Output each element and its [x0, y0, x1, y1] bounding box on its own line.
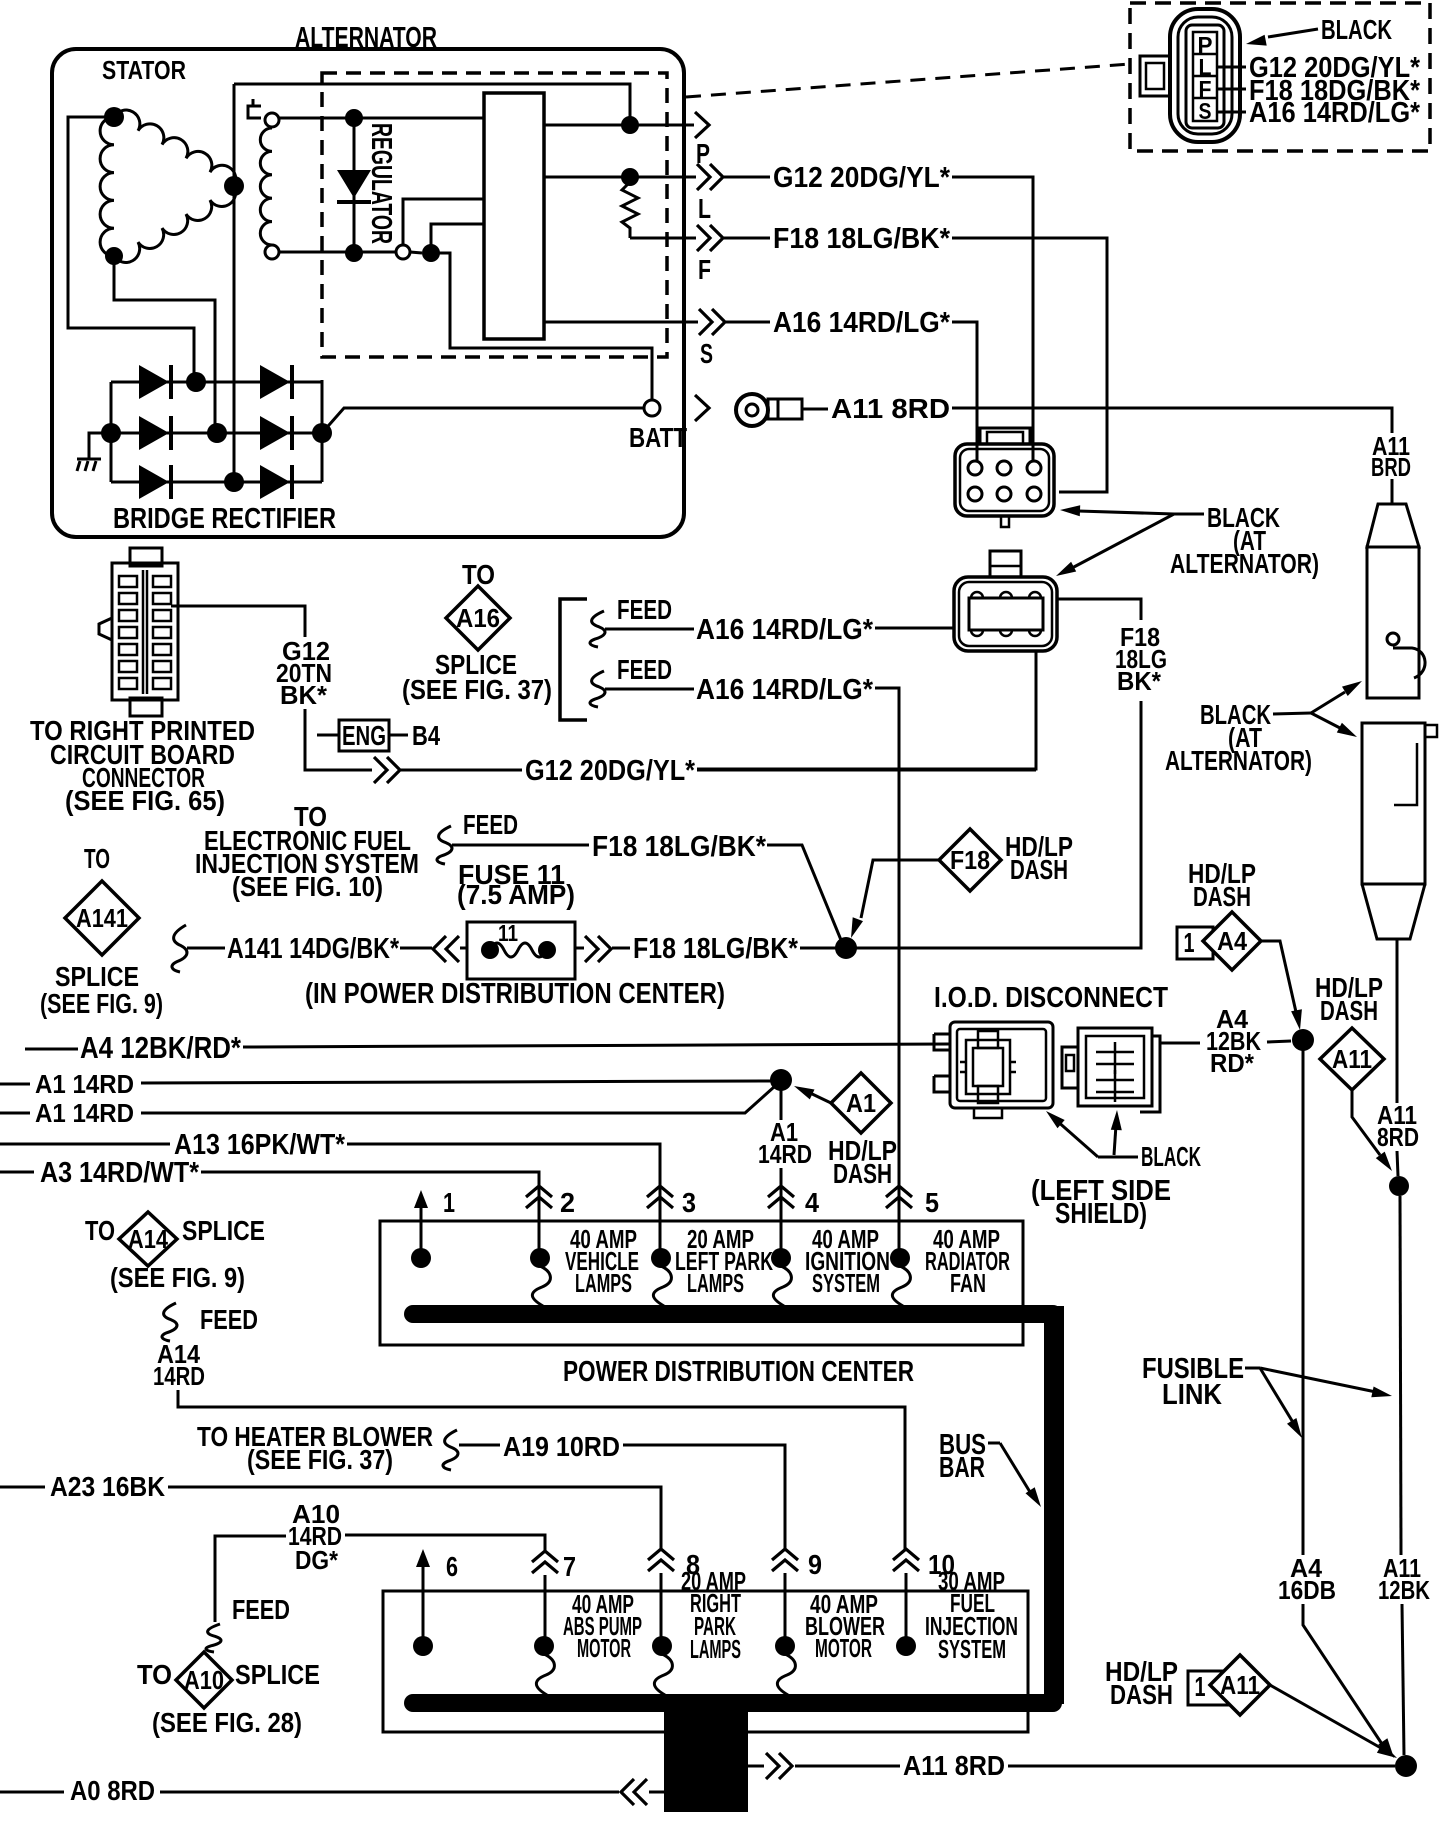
PDC box lower: [383, 1591, 1028, 1732]
wire into fusible link 1: [1391, 479, 1394, 504]
node bottom junction: [1395, 1755, 1417, 1777]
fuse 7 element: [536, 1654, 554, 1695]
pin C1-3: [1027, 461, 1041, 475]
connector C1 bottom tab: [1001, 516, 1009, 527]
terminal P chevron: [695, 112, 709, 138]
fuse 8 element: [654, 1654, 672, 1695]
wire open-terminal to block input: [403, 199, 484, 245]
svg-text:5: 5: [925, 1187, 939, 1218]
diode CR1 field: [353, 118, 356, 252]
bridge rectifier right rail: [321, 380, 324, 482]
svg-text:FEED: FEED: [200, 1304, 258, 1335]
wire fuse 4 from A1 node: [780, 1090, 783, 1120]
arrow to 3-pin connector: [1072, 514, 1174, 568]
wire A14 to fuse 10: [178, 1390, 905, 1551]
wire bridge to ground: [89, 433, 111, 458]
svg-text:FEED: FEED: [617, 654, 672, 685]
wire A19 lead: [459, 1444, 500, 1447]
svg-text:A1 14RD: A1 14RD: [35, 1069, 134, 1099]
arrow to fusible link 1: [1311, 692, 1345, 713]
wire to F18 junction node: [800, 947, 836, 950]
wire G12 20TN BK* from PCB connector: [171, 606, 305, 637]
svg-text:S: S: [700, 338, 713, 369]
wire break A19: [443, 1430, 458, 1470]
node F18 junction: [835, 937, 857, 959]
svg-text:G12 20DG/YL*: G12 20DG/YL*: [773, 162, 951, 194]
connector C1 top tab: [980, 428, 1030, 444]
fuse 11 terminal right: [538, 941, 556, 959]
wire A4 12BK RD* from IOD to node: [1160, 1042, 1200, 1045]
wire A13 16PK/WT* bus: [0, 1143, 170, 1146]
wire A11 8RD from tap block: [748, 1765, 764, 1768]
arrow to IOD left connector: [1056, 1120, 1098, 1157]
connector IOD left half: [950, 1022, 1053, 1108]
wire break FEED F18: [437, 826, 452, 864]
svg-text:POWER DISTRIBUTION CENTER: POWER DISTRIBUTION CENTER: [563, 1356, 914, 1388]
wire A1 14RD bus 1: [0, 1083, 30, 1086]
svg-text:FEED: FEED: [232, 1594, 290, 1625]
node A11 mid: [1389, 1176, 1409, 1196]
bus bar lower horizontal: [413, 1694, 1053, 1712]
svg-text:BATT: BATT: [629, 422, 687, 453]
svg-text:FEED: FEED: [617, 594, 672, 625]
wire A11 12BK down: [1400, 1196, 1401, 1555]
splice symbol F18: [939, 829, 1001, 891]
wire feed1 to 3-pin connector: [875, 627, 954, 630]
pin leader G12: [1217, 66, 1246, 69]
wire G12 lead lower: [401, 769, 522, 772]
arrow to A11 link: [1260, 1368, 1376, 1392]
wire regulator top feed: [234, 84, 630, 125]
diode CR5: [260, 416, 290, 450]
regulator dashed box: [322, 73, 667, 357]
wire from fuse box: [575, 947, 584, 950]
svg-text:BK*: BK*: [280, 680, 328, 710]
wire A10 to fuse 7: [215, 1535, 545, 1622]
fuse 7 chevron: [532, 1551, 558, 1562]
arrow to A4 link: [1260, 1368, 1294, 1424]
svg-text:A0 8RD: A0 8RD: [70, 1775, 155, 1806]
wire A1 bus1 to node: [141, 1081, 771, 1083]
ground: [77, 459, 101, 471]
svg-text:A13 16PK/WT*: A13 16PK/WT*: [174, 1129, 346, 1161]
svg-text:TO: TO: [137, 1659, 172, 1690]
wire A11 12BK to bottom junction: [1402, 1604, 1404, 1755]
wire G12 20TN down to chevron: [305, 709, 372, 770]
wire A141 lead: [187, 947, 225, 950]
pin C1-2: [997, 461, 1011, 475]
wire bridge row1: [111, 381, 322, 384]
svg-text:L: L: [698, 193, 711, 224]
svg-text:(IN POWER DISTRIBUTION CENTER): (IN POWER DISTRIBUTION CENTER): [305, 978, 725, 1010]
connector C2 3-pin body: [954, 577, 1057, 651]
svg-text:SHIELD): SHIELD): [1055, 1198, 1147, 1230]
node A1 junction: [770, 1069, 792, 1091]
svg-text:12BK: 12BK: [1378, 1575, 1430, 1605]
splice symbol A11 bottom: [1210, 1655, 1270, 1715]
wire break FEED 2: [590, 671, 605, 707]
svg-text:RD*: RD*: [1210, 1048, 1255, 1078]
wire A11 diamond to bottom junction: [1270, 1685, 1388, 1752]
svg-text:(SEE FIG. 28): (SEE FIG. 28): [152, 1707, 302, 1738]
wire G12 lower to 3-pin connector: [697, 769, 1036, 772]
svg-text:A141: A141: [76, 903, 128, 933]
svg-text:F18 18LG/BK*: F18 18LG/BK*: [592, 831, 767, 863]
arrow A1 diamond to node: [808, 1092, 831, 1103]
svg-text:ALTERNATOR): ALTERNATOR): [1165, 745, 1312, 776]
wire G12 lead: [724, 176, 770, 179]
bus bar vertical: [1044, 1306, 1064, 1704]
wire A0 to bus tap: [160, 1791, 619, 1794]
svg-text:(SEE FIG. 10): (SEE FIG. 10): [232, 871, 383, 902]
wire A0 into tap block: [649, 1791, 664, 1794]
pin leader A16: [1217, 111, 1246, 114]
svg-text:SYSTEM: SYSTEM: [938, 1634, 1006, 1664]
leader BLACK lower: [1273, 713, 1311, 714]
svg-text:A14: A14: [128, 1224, 168, 1254]
node field bottom: [345, 244, 363, 262]
node L: [621, 168, 639, 186]
diode CR7: [260, 465, 290, 499]
wire A23 16BK bus: [0, 1486, 45, 1489]
svg-text:14RD: 14RD: [153, 1361, 205, 1391]
wire A13 to fuse 3: [347, 1144, 660, 1250]
svg-text:F18: F18: [950, 845, 990, 875]
arrow BUS BAR to bus: [1000, 1443, 1030, 1492]
fuse 3 chevron: [647, 1186, 673, 1197]
leader BLACK shield: [1098, 1156, 1138, 1159]
svg-text:A1: A1: [846, 1088, 876, 1118]
terminal fuse-out double chevron (right): [585, 936, 598, 962]
wire break A141: [172, 925, 187, 972]
svg-text:(SEE FIG. 37): (SEE FIG. 37): [402, 674, 552, 705]
fusible link FL1: [1367, 504, 1419, 547]
svg-text:DASH: DASH: [1010, 854, 1068, 885]
svg-text:A19 10RD: A19 10RD: [503, 1431, 620, 1462]
wire A11 8RD to right column: [952, 408, 1392, 433]
wire into fuse box: [460, 947, 467, 950]
fuse 11 box: [467, 922, 575, 979]
node stator bottom: [105, 247, 123, 265]
svg-text:SYSTEM: SYSTEM: [812, 1268, 880, 1298]
svg-text:BAR: BAR: [939, 1452, 985, 1484]
splice symbol A10: [176, 1652, 232, 1708]
svg-text:LINK: LINK: [1162, 1379, 1222, 1411]
svg-text:FAN: FAN: [950, 1268, 986, 1298]
connector right printed circuit board: [112, 563, 178, 700]
wire break FEED A10: [206, 1624, 221, 1652]
terminal fuse-in double chevron (left): [433, 936, 446, 962]
fuse 9 chevron: [772, 1549, 798, 1560]
node fuse 9: [775, 1636, 795, 1656]
fuse 4 chevron: [768, 1186, 794, 1197]
wire node up into block: [431, 224, 484, 253]
svg-text:REGULATOR: REGULATOR: [365, 123, 397, 244]
stator delta winding W2 bottom-right edge: [114, 186, 236, 263]
stator delta winding W3 left edge: [100, 117, 114, 256]
fuse 11 terminal left: [481, 941, 499, 959]
wire break FEED A14: [162, 1303, 177, 1341]
wire node to BATT: [431, 253, 652, 400]
terminal field return (open): [396, 245, 410, 259]
node field top: [345, 109, 363, 127]
svg-text:DASH: DASH: [1193, 881, 1251, 912]
svg-text:3: 3: [682, 1187, 696, 1218]
fuse 10 chevron: [893, 1549, 919, 1560]
svg-text:I.O.D. DISCONNECT: I.O.D. DISCONNECT: [934, 982, 1168, 1014]
node fuse 1: [411, 1248, 431, 1268]
connector detail dashed box: [1130, 3, 1430, 151]
svg-text:A10: A10: [184, 1665, 224, 1695]
svg-text:A141 14DG/BK*: A141 14DG/BK*: [227, 933, 400, 965]
svg-text:ALTERNATOR: ALTERNATOR: [295, 22, 437, 54]
wire to fuse chevron: [400, 947, 432, 950]
connector tab left: [1140, 56, 1170, 96]
dashed leader from alternator to detail box: [686, 64, 1130, 97]
svg-text:SPLICE: SPLICE: [182, 1215, 265, 1246]
svg-text:ALTERNATOR): ALTERNATOR): [1170, 548, 1319, 579]
arrow to fusible link 2: [1311, 713, 1340, 728]
wire A1 bus2 to node: [141, 1087, 774, 1113]
wire A11 8RD to junction: [1008, 1765, 1395, 1768]
svg-text:A11: A11: [1220, 1670, 1260, 1700]
wire A1 14RD bus 2: [0, 1112, 30, 1115]
resistor R1: [622, 182, 638, 238]
connector C2 terminal bar: [969, 598, 1043, 630]
svg-text:B4: B4: [412, 720, 441, 751]
splice symbol A11 upper: [1320, 1028, 1384, 1090]
node fuse 3: [651, 1248, 671, 1268]
svg-text:F18 18LG/BK*: F18 18LG/BK*: [773, 223, 951, 255]
svg-text:(SEE FIG. 9): (SEE FIG. 9): [40, 988, 163, 1019]
svg-text:A4: A4: [1217, 926, 1247, 956]
wire A4 bus to IOD connector: [243, 1044, 950, 1047]
svg-text:LAMPS: LAMPS: [575, 1268, 632, 1298]
connector C2 top tab: [990, 551, 1021, 577]
node P: [621, 116, 639, 134]
svg-text:14RD: 14RD: [758, 1139, 812, 1169]
svg-text:A1 14RD: A1 14RD: [35, 1098, 134, 1128]
wire L output: [544, 176, 696, 179]
node fuse 5: [890, 1248, 910, 1268]
stator delta winding W1 top-right edge: [114, 110, 236, 186]
svg-text:BK*: BK*: [1117, 666, 1162, 696]
svg-text:BLACK: BLACK: [1321, 14, 1392, 45]
wire F18 lead: [724, 237, 770, 240]
pin C1-5: [997, 487, 1011, 501]
bus bar tap block: [664, 1705, 748, 1812]
svg-text:11: 11: [498, 920, 518, 946]
svg-text:4: 4: [805, 1187, 820, 1218]
svg-text:F: F: [698, 254, 711, 285]
terminal L double chevron: [697, 164, 710, 190]
bus bar upper horizontal: [413, 1305, 1053, 1323]
diode CR6: [139, 465, 169, 499]
svg-text:LAMPS: LAMPS: [690, 1634, 741, 1664]
wire A4 16DB down: [1302, 1040, 1305, 1555]
fuse 6 stud arrow: [422, 1559, 425, 1571]
fuse 4 element: [773, 1266, 791, 1306]
ring terminal A11: [736, 394, 768, 426]
wire A11 8RD lead: [795, 1765, 900, 1768]
wire P output: [544, 124, 694, 127]
wire F18 to connector: [952, 238, 1107, 492]
svg-text:1: 1: [1184, 927, 1195, 958]
svg-text:A16: A16: [456, 603, 500, 633]
wire A4 16DB to bottom junction: [1303, 1604, 1382, 1744]
node fuse 10: [896, 1636, 916, 1656]
node bridge row1: [186, 372, 206, 392]
svg-text:DG*: DG*: [295, 1545, 339, 1575]
leader BUS BAR: [988, 1442, 1000, 1445]
connector cavity 1 box (A4): [1177, 927, 1213, 959]
wire A4 diamond to node with arrow: [1261, 941, 1296, 1012]
rotor terminal top (open): [265, 113, 279, 127]
svg-text:DASH: DASH: [1110, 1679, 1173, 1710]
terminal A11 double chevron: [766, 1753, 779, 1779]
wire break FEED 1: [590, 611, 605, 647]
arrow BLACK to connector: [1268, 29, 1318, 37]
bracket for A16 feeds: [560, 599, 587, 720]
fuse 9 element: [777, 1654, 795, 1695]
regulator block U1: [484, 93, 544, 339]
terminal S double chevron: [699, 309, 712, 335]
svg-text:FEED: FEED: [463, 809, 518, 840]
fuse 5 element: [892, 1266, 910, 1306]
wire A16 lead: [726, 321, 770, 324]
svg-text:MOTOR: MOTOR: [577, 1633, 631, 1663]
pin C1-1: [968, 461, 982, 475]
node A4 junction: [1292, 1029, 1314, 1051]
node bridge row2 mid: [207, 423, 227, 443]
svg-text:A16 14RD/LG*: A16 14RD/LG*: [773, 307, 951, 339]
node stator top: [104, 107, 124, 127]
alternator enclosure box: [52, 49, 684, 537]
svg-text:8RD: 8RD: [1377, 1122, 1419, 1152]
rotor terminal bottom (open): [265, 245, 279, 259]
svg-text:BLACK: BLACK: [1141, 1141, 1201, 1172]
wire F18 feed: [452, 844, 589, 847]
svg-text:TO: TO: [85, 1215, 115, 1246]
wire F18 junction to 3-pin connector: [846, 701, 1141, 948]
wire A23 to fuse 8: [168, 1487, 661, 1550]
svg-text:A16 14RD/LG*: A16 14RD/LG*: [696, 614, 874, 646]
diode CR3: [260, 365, 290, 399]
wire to A11 node: [1397, 1151, 1398, 1176]
fuse 3 element: [653, 1266, 671, 1306]
arrow to 6-pin connector: [1078, 511, 1174, 514]
svg-text:BRIDGE RECTIFIER: BRIDGE RECTIFIER: [113, 503, 336, 535]
wire stator top node to bridge row1: [68, 117, 194, 374]
pin C1-4: [968, 487, 982, 501]
fuse 1 stud arrow: [420, 1200, 423, 1212]
terminal BATT chevron: [695, 395, 709, 421]
connector face (at alternator): [1170, 9, 1240, 142]
wire F18 feed to junction: [767, 845, 841, 940]
wire A4 12BK/RD* bus: [25, 1048, 78, 1051]
bridge rectifier left rail: [110, 382, 113, 482]
wire A16 feed 2: [605, 688, 694, 691]
svg-text:DASH: DASH: [833, 1158, 892, 1189]
wire label to node: [1267, 1041, 1291, 1042]
svg-text:TO: TO: [84, 843, 110, 874]
fuse 5 chevron: [886, 1186, 912, 1197]
connector cavity 1 box (A11): [1188, 1671, 1230, 1705]
wire from FL2 down: [1396, 939, 1399, 1103]
pin leader F18: [1217, 88, 1246, 91]
node fuse 4: [771, 1248, 791, 1268]
pin C1-6: [1027, 487, 1041, 501]
wire F18 diamond to junction with arrow: [861, 860, 939, 918]
wire A16 to connector: [952, 322, 977, 462]
node fuse 6: [413, 1636, 433, 1656]
node fuse 2: [530, 1248, 550, 1268]
wire A16 feed 1: [605, 628, 694, 631]
svg-text:A16 14RD/LG*: A16 14RD/LG*: [696, 674, 874, 706]
svg-text:LAMPS: LAMPS: [687, 1268, 744, 1298]
wire stator right node up to regulator and down to bridge row3: [233, 84, 236, 474]
diode CR4: [139, 416, 169, 450]
svg-text:(7.5 AMP): (7.5 AMP): [457, 879, 575, 910]
svg-text:9: 9: [808, 1549, 822, 1580]
svg-text:(SEE FIG. 65): (SEE FIG. 65): [65, 785, 225, 816]
svg-text:(SEE FIG. 37): (SEE FIG. 37): [247, 1444, 393, 1475]
node fuse 8: [652, 1636, 672, 1656]
fuse 11 element: [490, 943, 547, 957]
node stator right: [224, 176, 244, 196]
PDC box upper: [380, 1221, 1023, 1345]
wire A11 lead: [802, 408, 828, 411]
svg-text:6: 6: [446, 1551, 458, 1582]
svg-text:ENG: ENG: [342, 720, 386, 751]
terminal BATT (open): [644, 400, 660, 416]
node bridge left: [101, 423, 121, 443]
wire bridge output to BATT: [322, 408, 643, 433]
node fuse 7: [534, 1636, 554, 1656]
leader FUSIBLE LINK: [1245, 1367, 1260, 1370]
svg-text:BRD: BRD: [1371, 452, 1411, 482]
terminal G12 double chevron: [374, 757, 387, 783]
wire A0 8RD bus: [0, 1791, 64, 1794]
svg-text:G12 20DG/YL*: G12 20DG/YL*: [525, 755, 696, 787]
wire bridge row2: [111, 432, 322, 435]
svg-text:S: S: [1199, 98, 1212, 124]
label ENG connector: [317, 734, 338, 737]
wire F output: [630, 237, 696, 240]
diode CR2: [139, 365, 169, 399]
terminal F double chevron: [697, 225, 710, 251]
terminal A0 double chevron (left): [621, 1779, 634, 1805]
wire stator bottom node to bridge row2: [114, 256, 215, 425]
wire G12 to connector: [952, 177, 1033, 462]
rotor slip-ring symbol: [248, 99, 261, 118]
svg-text:A23 16BK: A23 16BK: [50, 1471, 165, 1502]
wire A11 diamond to node with arrow: [1352, 1090, 1380, 1155]
wire field top line: [279, 117, 484, 120]
svg-text:A16 14RD/LG*: A16 14RD/LG*: [1249, 97, 1421, 129]
fuse 8 chevron: [648, 1549, 674, 1560]
svg-text:1: 1: [1195, 1671, 1206, 1702]
svg-text:DASH: DASH: [1320, 995, 1378, 1026]
wire A19 to fuse 9: [623, 1445, 785, 1550]
wire field bottom line: [279, 251, 396, 254]
leader BLACK upper: [1174, 513, 1204, 516]
svg-text:SPLICE: SPLICE: [235, 1659, 320, 1690]
node field/S junction: [422, 244, 440, 262]
node bridge right: [312, 423, 332, 443]
svg-text:2: 2: [560, 1187, 575, 1218]
wire field bottom to node: [410, 252, 422, 253]
